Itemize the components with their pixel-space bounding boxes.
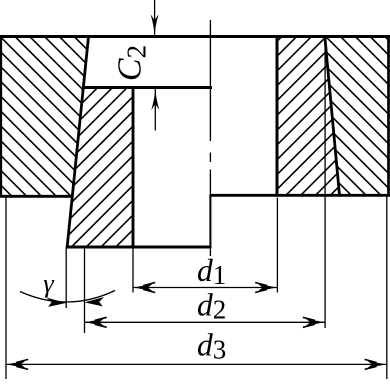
plug bottom face (left half) (66, 246, 212, 249)
plate bottom edge right (210, 194, 390, 197)
extension line d1 right (276, 198, 278, 293)
extension line d2 right (from right taper top corner) (324, 39, 326, 329)
plate left outer edge (0, 37, 2, 197)
recess bottom edge (plug top, left half) (83, 86, 212, 89)
d1 dimension line (133, 287, 277, 289)
plate bottom edge left (0, 195, 72, 198)
extension line d3 left (5, 198, 7, 380)
d3 dimension line (6, 363, 387, 365)
extension line d3 right (386, 197, 388, 380)
svg-text:γ: γ (43, 268, 55, 298)
extension line: taper line extended below plug (65, 249, 67, 309)
plate right outer edge (387, 37, 390, 196)
C2 dimension upper arrow (above top face) (154, 0, 156, 35)
top face edge (full width) (0, 35, 390, 38)
svg-text:C2: C2 (112, 45, 152, 81)
extension line d1 left (132, 249, 134, 293)
left taper boundary (plug/plate) (67, 37, 89, 249)
gamma dimension arc with arrows (20, 291, 115, 303)
extension line: d2 left / gamma vertical reference (84, 249, 86, 334)
centerline (axis) (209, 20, 211, 256)
right taper boundary (325, 37, 340, 196)
svg-text:d1: d1 (197, 253, 226, 290)
d2 dimension line (85, 321, 326, 323)
C2 dimension lower arrow (below recess line) (154, 89, 156, 131)
plate hole right edge (276, 37, 279, 196)
svg-text:d2: d2 (197, 288, 226, 325)
step edge at centerline (209, 194, 211, 248)
plug hole left edge (d1) (132, 86, 135, 248)
svg-text:d3: d3 (197, 328, 226, 365)
